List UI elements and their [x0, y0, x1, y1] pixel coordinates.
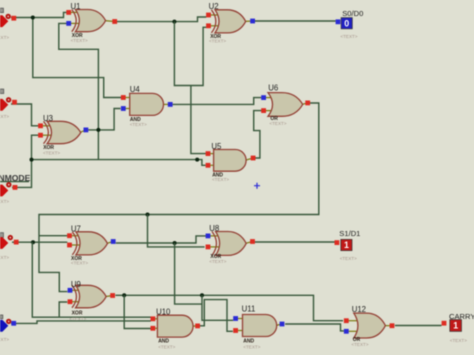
- wire B0 to U3 top input: [11, 104, 38, 126]
- output indicator CARRY: [442, 312, 474, 343]
- svg-text:<TEXT>: <TEXT>: [450, 338, 467, 343]
- svg-text:<TEXT>: <TEXT>: [71, 38, 88, 43]
- svg-text:U12: U12: [352, 305, 366, 314]
- junction on U9 output line: [200, 293, 204, 297]
- origin marker: [254, 183, 260, 189]
- svg-text:1: 1: [453, 321, 458, 331]
- wire U5 output to U6 bottom input: [254, 111, 262, 158]
- or gate U6: [261, 84, 310, 127]
- svg-text:U5: U5: [211, 142, 222, 151]
- wire U1 output to U2 top input: [117, 17, 206, 22]
- svg-text:<TEXT>: <TEXT>: [0, 337, 9, 342]
- wire MODE branch to U5 bottom input: [32, 160, 206, 166]
- wire A1 to U7 bottom input: [12, 241, 67, 243]
- label INMODE: [0, 173, 31, 183]
- wire A1 branch to U9 bottom input: [59, 302, 67, 317]
- output indicator S0/D0: [336, 9, 364, 39]
- and gate U4: [121, 85, 173, 127]
- svg-text:<TEXT>: <TEXT>: [351, 342, 368, 347]
- xor gate U8: [206, 224, 255, 264]
- input B1: [0, 315, 16, 342]
- or gate U12: [344, 305, 395, 347]
- svg-text:<TEXT>: <TEXT>: [158, 344, 175, 349]
- wire U3 output node up to U1 bottom input: [59, 23, 99, 159]
- svg-text:U8: U8: [209, 224, 219, 233]
- svg-text:U7: U7: [71, 224, 81, 233]
- svg-text:<TEXT>: <TEXT>: [130, 122, 147, 127]
- xor gate U7: [67, 224, 116, 265]
- svg-text:S1/D1: S1/D1: [339, 229, 360, 238]
- svg-text:0: 0: [344, 18, 349, 28]
- wire branch to U11 top input: [202, 295, 233, 320]
- svg-text:<TEXT>: <TEXT>: [69, 316, 86, 321]
- output indicator S1/D1: [335, 229, 361, 261]
- svg-text:INMODE: INMODE: [0, 173, 31, 183]
- wire A0 branch down to U4 top input: [33, 18, 122, 98]
- junction U3 output: [96, 128, 100, 132]
- and gate U10: [151, 308, 201, 350]
- wire B1 toward U10: [11, 321, 151, 324]
- svg-text:1: 1: [344, 240, 349, 250]
- junction carry line: [146, 213, 150, 217]
- and gate U11: [233, 305, 284, 350]
- svg-text:U2: U2: [209, 2, 219, 11]
- svg-text:<TEXT>: <TEXT>: [71, 260, 88, 265]
- junction U7 output: [173, 241, 177, 245]
- svg-text:<TEXT>: <TEXT>: [43, 151, 60, 156]
- wire U4 output to U6 top input: [173, 98, 262, 105]
- svg-text:U10: U10: [156, 308, 171, 317]
- wire U2 output to S0/D0: [255, 20, 336, 22]
- wire U3 output to U4 bottom input: [88, 109, 120, 130]
- wire carry branch to U8 bottom input: [148, 215, 205, 247]
- svg-text:U6: U6: [268, 84, 278, 93]
- svg-text:<TEXT>: <TEXT>: [0, 255, 9, 260]
- xor gate U2: [206, 2, 255, 43]
- wire U12 output to CARRY: [395, 325, 442, 327]
- wire U7 output branch down: [175, 243, 202, 304]
- wire U11 output to U12 bottom input: [285, 324, 344, 331]
- svg-text:<TEXT>: <TEXT>: [269, 121, 286, 126]
- svg-text:<TEXT>: <TEXT>: [243, 345, 260, 350]
- junction A1: [31, 240, 35, 244]
- svg-text:U11: U11: [242, 305, 256, 314]
- svg-text:<TEXT>: <TEXT>: [0, 114, 9, 119]
- and gate U5: [206, 142, 256, 182]
- input A0: [0, 8, 16, 40]
- svg-text:<TEXT>: <TEXT>: [209, 259, 226, 264]
- svg-text:<TEXT>: <TEXT>: [212, 177, 229, 182]
- wire U8 output to S1/D1: [255, 241, 335, 243]
- svg-text:<TEXT>: <TEXT>: [0, 35, 9, 40]
- xor gate U9: [68, 280, 115, 321]
- svg-text:U4: U4: [130, 85, 141, 94]
- wire U7 output to U8 top input: [116, 236, 206, 243]
- wire A1 branch to U10 top input: [32, 242, 151, 317]
- junction A0 branch: [31, 16, 35, 20]
- svg-text:<TEXT>: <TEXT>: [209, 38, 226, 43]
- junction near U5: [195, 158, 199, 162]
- svg-text:<TEXT>: <TEXT>: [340, 256, 357, 261]
- input B0: [0, 89, 17, 119]
- junction U9 output: [122, 293, 126, 297]
- wire branch down to U5 top input: [191, 86, 206, 154]
- input A1: [0, 233, 19, 260]
- junction MODE branch: [30, 158, 34, 162]
- wire A0 to U1 top input: [11, 12, 67, 17]
- svg-text:<TEXT>: <TEXT>: [340, 34, 357, 39]
- wire U9 output to U12 top input: [115, 295, 343, 320]
- svg-text:<TEXT>: <TEXT>: [0, 199, 9, 204]
- wire U6 output carry line to U9 top input: [39, 103, 319, 292]
- svg-text:U3: U3: [43, 114, 53, 123]
- svg-text:S0/D0: S0/D0: [342, 9, 363, 18]
- xor gate U3: [38, 114, 88, 156]
- wire U10 output to U11 bottom input: [200, 300, 233, 332]
- junction U1 output: [172, 20, 176, 24]
- svg-text:U9: U9: [71, 280, 81, 289]
- svg-text:U1: U1: [71, 2, 81, 11]
- wire U9 output branch to U10 bottom input: [124, 295, 151, 328]
- wire MODE up to U3 bottom input: [12, 135, 38, 187]
- wire U1 output branch to U2 bottom input: [174, 22, 206, 86]
- xor gate U1: [66, 2, 117, 43]
- input MODE: [0, 182, 17, 204]
- wire carry branch to U7 top input: [39, 235, 67, 237]
- wire stub at MODE label: [0, 181, 29, 183]
